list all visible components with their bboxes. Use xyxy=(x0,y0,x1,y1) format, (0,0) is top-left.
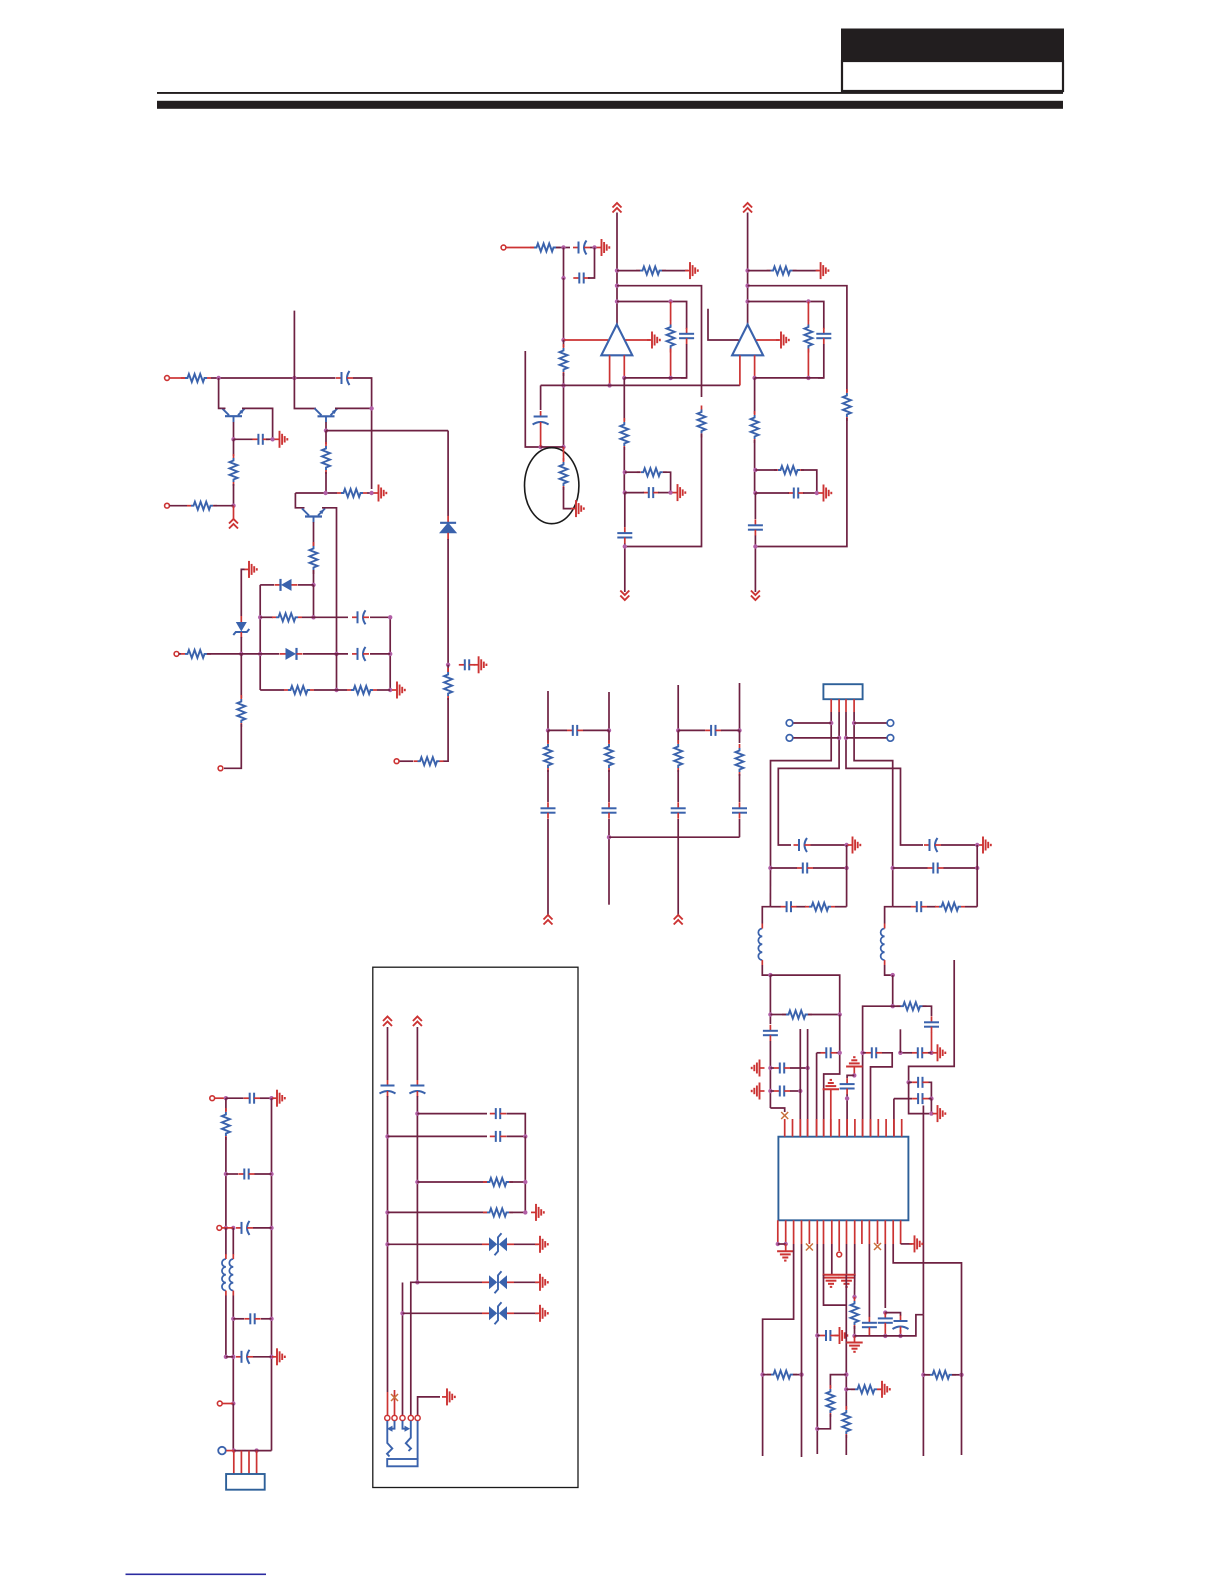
wire branch2 mid xyxy=(608,730,610,743)
capacitor C202 xyxy=(573,273,589,284)
node junction xyxy=(829,721,833,725)
wire U2 bottom pin 8 xyxy=(831,1220,833,1244)
wire c407 l xyxy=(893,867,928,869)
wire row 837 xyxy=(609,836,740,838)
wire branch3 top xyxy=(677,685,679,730)
inductor L402 xyxy=(881,924,885,966)
capacitor C413 xyxy=(840,1078,855,1094)
node junction xyxy=(561,445,565,449)
wire C201 gnd xyxy=(590,247,597,249)
wire C203 low xyxy=(681,344,687,378)
wire r404 l xyxy=(893,1005,901,1007)
jack J4 sleeve line xyxy=(417,1421,419,1459)
resistor R205 xyxy=(667,321,675,353)
wire input rail xyxy=(563,278,565,340)
node junction xyxy=(906,1080,910,1084)
wire b4 tail xyxy=(739,819,741,837)
ground GND9 xyxy=(571,500,584,517)
wire row 493 xyxy=(295,492,337,494)
wire J1-4 stub xyxy=(399,760,413,762)
wire c501 r xyxy=(260,1097,272,1099)
wire pin11 drop xyxy=(854,1275,856,1297)
node junction xyxy=(668,299,672,303)
terminal JK-4 xyxy=(408,1415,413,1420)
resistor R112 xyxy=(284,686,314,694)
node junction xyxy=(623,544,627,548)
wire diode row left xyxy=(260,584,274,586)
wire e-left1 xyxy=(225,1098,227,1111)
power +V arrow P1 xyxy=(229,519,238,529)
wire gnd bus feeds xyxy=(823,1244,825,1275)
wire row 654 a xyxy=(207,653,241,655)
wire R103 to node xyxy=(214,505,234,507)
wire U2 bottom pin 9 xyxy=(846,1220,848,1244)
wire jog ch1 low xyxy=(762,965,770,975)
resistor R102 xyxy=(230,454,238,486)
node junction xyxy=(852,721,856,725)
wire U2 bottom pin 2 xyxy=(785,1220,787,1244)
wire gnd to zener rail xyxy=(241,569,244,616)
node junction xyxy=(891,866,895,870)
ground GND34 xyxy=(823,1278,839,1287)
resistor R110 xyxy=(272,613,302,621)
wire op2 pin l xyxy=(739,355,741,385)
node junction xyxy=(806,299,810,303)
ground GND25 xyxy=(846,1343,862,1352)
wire c407 r xyxy=(944,867,978,869)
connector CN1 box xyxy=(823,684,862,699)
node junction xyxy=(745,284,749,288)
terminal JK-3 xyxy=(400,1415,405,1420)
node junction xyxy=(838,1012,842,1016)
node junction xyxy=(753,491,757,495)
wire CN1 pin2 xyxy=(838,699,840,712)
wire U2 top pin 11 xyxy=(862,1119,864,1137)
capacitor C419 xyxy=(893,1316,909,1333)
wire gnd19 stub xyxy=(853,1067,855,1076)
wire p2 drop xyxy=(778,712,839,845)
resistor R105 xyxy=(414,757,444,765)
node junction xyxy=(231,1226,235,1230)
wire jog ch1 xyxy=(762,907,770,924)
capacitor C206 xyxy=(617,527,632,543)
wire U2 bottom pin 14 xyxy=(884,1220,886,1244)
resistor R101 xyxy=(181,374,211,382)
wire R211 bottom xyxy=(807,349,809,378)
wire Q103 collector xyxy=(335,407,372,409)
wire c415 l xyxy=(894,1098,912,1100)
wire U2 top pin 1 xyxy=(784,1119,786,1137)
wire op2 low2 xyxy=(754,440,756,493)
wire c410 drop xyxy=(816,1053,818,1137)
wire osc stub2 xyxy=(807,1029,809,1137)
wire r209 l xyxy=(748,270,771,272)
wire e bottom rail xyxy=(232,1404,234,1451)
terminal J3-2 xyxy=(217,1226,222,1231)
tvs diode ZD602 xyxy=(482,1271,514,1293)
node junction xyxy=(852,1073,856,1077)
transistor Q102 xyxy=(302,509,325,523)
resistor R304 xyxy=(736,744,744,776)
op-amp U1A xyxy=(601,325,632,356)
ground GND7 xyxy=(685,262,698,279)
wire vcc1 rail xyxy=(616,213,618,325)
capacitor C502 xyxy=(238,1169,254,1180)
wire f r6 r xyxy=(514,1281,538,1283)
wire r203 gnd xyxy=(662,270,688,272)
terminal J1-4 xyxy=(394,759,399,764)
node junction xyxy=(929,1051,933,1055)
node junction xyxy=(844,1387,848,1391)
wire cap cluster top1 xyxy=(868,1244,870,1317)
wire to J1-2 xyxy=(233,484,235,506)
ground GND19 xyxy=(846,1057,862,1066)
wire gnd19 jog xyxy=(847,1075,854,1078)
wire jog r406 xyxy=(830,1375,846,1388)
wire fb c l xyxy=(625,492,644,494)
node junction xyxy=(898,1334,902,1338)
ground GND22 xyxy=(777,1251,793,1260)
capacitor C208 xyxy=(788,488,804,499)
node junction xyxy=(845,1096,849,1100)
node junction xyxy=(334,688,338,692)
wire c416 r xyxy=(836,1335,838,1337)
jack J4 body xyxy=(387,1459,417,1466)
node junction xyxy=(269,1355,273,1359)
node junction xyxy=(224,1172,228,1176)
node junction xyxy=(311,615,315,619)
footer blue rule xyxy=(126,1574,267,1576)
node junction xyxy=(668,490,672,494)
resistor R208 xyxy=(637,468,667,476)
wire b2 tail xyxy=(608,819,610,905)
power arrow P9 xyxy=(413,1017,422,1027)
wire U2 bottom pin 10 xyxy=(854,1220,856,1244)
power +V arrow P4 xyxy=(743,203,752,213)
wire mic res top xyxy=(563,447,565,461)
wire row906 ch2 xyxy=(893,906,911,908)
ground GND11 xyxy=(816,262,829,279)
wire pin3 route xyxy=(763,1244,794,1456)
resistor R113 xyxy=(347,686,377,694)
wire c405 r xyxy=(790,1067,808,1069)
wire fb rail ch1 low xyxy=(625,434,702,547)
terminal J1-1 xyxy=(165,376,170,381)
resistor R107 xyxy=(337,489,367,497)
wire row 690 b xyxy=(314,689,347,691)
wire f b jog xyxy=(411,1282,418,1415)
wire c411 l xyxy=(863,1052,866,1054)
wire Q1 emitter diag join xyxy=(222,407,226,409)
resistor R206 xyxy=(560,458,568,490)
node junction xyxy=(959,1373,963,1377)
wire J1-1 stub xyxy=(170,377,186,379)
wire c404 low xyxy=(769,1041,771,1108)
wire c501 l xyxy=(226,1097,244,1099)
wire Q1 base xyxy=(233,422,235,439)
tvs diode ZD601 xyxy=(482,1233,514,1255)
capacitor C405 xyxy=(774,1063,790,1074)
wire vcc2 rail xyxy=(747,213,749,325)
wire p1 jog xyxy=(770,1108,784,1112)
wire op1 -in xyxy=(564,339,609,341)
wire J2 stub xyxy=(506,247,534,249)
wire x846 main xyxy=(845,1275,847,1409)
node junction xyxy=(768,866,772,870)
wire CN2 pin4 xyxy=(256,1451,258,1474)
resistor R602 xyxy=(483,1208,513,1216)
terminal JK-2 xyxy=(392,1415,397,1420)
wire base rows join xyxy=(313,585,315,617)
node junction xyxy=(269,1317,273,1321)
wire x770 low xyxy=(769,975,771,1024)
wire c505 r xyxy=(253,1356,272,1358)
wire op1 pin l xyxy=(609,355,611,385)
wire row975 ch1 xyxy=(770,975,839,1014)
wire to +V arrow xyxy=(233,506,235,519)
wire R211 top xyxy=(807,302,809,322)
resistor R301 xyxy=(544,740,552,772)
capacitor C303 xyxy=(671,802,686,818)
wire gnd bus left drop xyxy=(824,1275,847,1305)
node junction xyxy=(798,1089,802,1093)
capacitor C105 xyxy=(352,647,369,661)
wire op2 in stub xyxy=(708,309,739,340)
wire fB top xyxy=(416,1027,418,1080)
capacitor C205 xyxy=(643,487,659,498)
ground GND3 xyxy=(374,485,387,502)
wire zener to row xyxy=(240,637,242,654)
wire f r7 r xyxy=(514,1312,538,1314)
wire jog ch2 low xyxy=(885,965,893,975)
terminal JK-5 xyxy=(415,1415,420,1420)
node junction xyxy=(852,1334,856,1338)
wire r405 r xyxy=(793,1374,802,1376)
tvs diode ZD603 xyxy=(482,1302,514,1324)
op-amp U1B xyxy=(732,325,763,356)
wire row378 ch2 xyxy=(755,377,824,379)
node junction xyxy=(975,843,979,847)
wire to J1-5 xyxy=(224,724,241,768)
diode D101 xyxy=(440,516,456,540)
wire c410 l xyxy=(817,1052,821,1054)
wire e ind2 low xyxy=(232,1296,234,1404)
resistor R202 xyxy=(560,344,568,376)
wire U2 bottom pin 13 xyxy=(877,1220,879,1244)
wire diode branch xyxy=(447,431,449,516)
wire Q1 collector xyxy=(242,408,273,439)
electret mic M1 xyxy=(525,448,579,524)
wire r409 low xyxy=(854,1326,856,1336)
terminal TP1 xyxy=(837,1252,842,1257)
wire c417 low xyxy=(868,1333,870,1336)
wire CN2 pin2 xyxy=(240,1451,242,1474)
wire e ind2 top xyxy=(232,1228,234,1255)
capacitor C306 xyxy=(705,725,721,736)
terminal J1-3 xyxy=(174,652,179,657)
wire x260 rail xyxy=(259,585,261,690)
wire out cap ch1 xyxy=(624,493,626,527)
wire c419 low xyxy=(900,1330,902,1336)
node junction xyxy=(607,728,611,732)
wire fb c l ch2 xyxy=(755,492,789,494)
wire Q102 collector xyxy=(322,508,337,654)
wire f t5 gnd xyxy=(418,1397,440,1415)
wire r203 l xyxy=(617,270,640,272)
capacitor C209 xyxy=(748,519,763,535)
wire row 654 d xyxy=(370,653,390,655)
wire U2 bottom pin 7 xyxy=(823,1220,825,1244)
wire fb c r ch2 xyxy=(803,492,817,494)
wire row 654 c xyxy=(303,653,348,655)
no-connect X3 xyxy=(391,1394,398,1401)
wire x892 rail xyxy=(892,864,894,907)
wire diode row right xyxy=(298,584,314,586)
wire branch1 top xyxy=(547,691,549,730)
wire fA top xyxy=(387,1027,389,1080)
wire r405 l xyxy=(763,1374,771,1376)
wire row378 ch1 xyxy=(624,377,686,379)
ground GND32 xyxy=(535,1305,548,1322)
wire f r4 r xyxy=(510,1211,526,1213)
capacitor C401 xyxy=(794,838,811,852)
wire x908 drop xyxy=(909,1082,930,1113)
wire row 617 mid xyxy=(302,616,348,618)
resistor R211 xyxy=(804,321,812,353)
node junction xyxy=(311,583,315,587)
node junction xyxy=(231,437,235,441)
node junction xyxy=(385,1210,389,1214)
wire fb r l xyxy=(625,471,640,473)
resistor R404 xyxy=(897,1002,927,1010)
wire row 617 left xyxy=(260,616,273,618)
ground GND12 xyxy=(776,332,789,349)
wire gnd22 stub xyxy=(785,1244,787,1251)
wire c305 l xyxy=(548,729,567,731)
wire node301 row ch2 xyxy=(748,302,824,330)
capacitor C416 xyxy=(820,1330,836,1341)
wire x977 rail xyxy=(976,845,978,907)
wire op2 low xyxy=(754,378,756,414)
node junction xyxy=(891,1004,895,1008)
wire row 654 b xyxy=(241,653,279,655)
node junction xyxy=(752,376,756,380)
wire branch3 low xyxy=(677,770,679,802)
wire U2 top pin 9 xyxy=(846,1119,848,1137)
node junction xyxy=(446,663,450,667)
wire c409 low xyxy=(931,1033,933,1053)
wire cap cluster top2 xyxy=(884,1244,886,1308)
terminal J3-3 xyxy=(217,1401,222,1406)
wire op1 low xyxy=(623,378,625,421)
inductor L501 xyxy=(222,1254,226,1296)
jack J4 switch arrow 1 xyxy=(387,1421,395,1432)
wire U2 top pin 12 xyxy=(870,1119,872,1137)
wire Q102 emitter feed xyxy=(295,493,304,508)
capacitor C104 xyxy=(352,610,369,624)
node junction xyxy=(975,866,979,870)
wire f c rail xyxy=(402,1283,404,1416)
wire c412 r xyxy=(928,1052,932,1054)
transistor Q103 xyxy=(315,408,338,422)
node junction xyxy=(224,1355,228,1359)
resistor R213 xyxy=(774,466,804,474)
node junction xyxy=(623,490,627,494)
capacitor C410 xyxy=(820,1047,836,1058)
node junction xyxy=(292,376,296,380)
wire jog ch2 xyxy=(885,907,893,924)
wire c416 l xyxy=(817,1335,820,1337)
node junction xyxy=(385,1134,389,1138)
wire c415 r xyxy=(929,1098,932,1100)
wire fb rail ch1 xyxy=(617,286,702,397)
terminal T-L2 xyxy=(786,735,793,742)
node junction xyxy=(891,973,895,977)
node junction xyxy=(388,652,392,656)
node junction xyxy=(385,1242,389,1246)
resistor R408 xyxy=(842,1406,850,1438)
node junction xyxy=(844,736,848,740)
wire e-left2 xyxy=(225,1137,227,1228)
node junction xyxy=(231,504,235,508)
wire c402 r xyxy=(813,867,847,869)
node junction xyxy=(561,338,565,342)
wire pin4 long xyxy=(801,1244,803,1457)
wire f t2 stub xyxy=(394,1390,396,1415)
wire below cap node xyxy=(447,665,449,672)
wire gnd bus feed2 xyxy=(831,1244,833,1275)
wire c412 l xyxy=(900,1052,912,1054)
node junction xyxy=(768,1089,772,1093)
node junction xyxy=(852,1295,856,1299)
wire C207 low xyxy=(818,344,824,378)
wire U2 top pin 8 xyxy=(838,1119,840,1137)
wire c405 l xyxy=(770,1067,774,1069)
node junction xyxy=(254,1448,258,1452)
capacitor C505 xyxy=(236,1350,253,1364)
node junction xyxy=(231,1401,235,1405)
capacitor C601 xyxy=(380,1080,396,1097)
wire branch4 mid xyxy=(739,730,741,743)
wire fA mid xyxy=(387,1096,389,1392)
node junction xyxy=(615,268,619,272)
wire net N1b xyxy=(353,378,372,489)
node junction xyxy=(224,1226,228,1230)
wire row385 xyxy=(541,384,740,386)
wire c413 low xyxy=(846,1094,848,1136)
wire branch4 low xyxy=(739,774,741,802)
power arrow P6 xyxy=(544,915,553,925)
capacitor C411 xyxy=(866,1047,882,1058)
capacitor C414 xyxy=(912,1077,928,1088)
node junction xyxy=(898,1051,902,1055)
resistor R409 xyxy=(851,1297,859,1329)
node junction xyxy=(883,1334,887,1338)
wire f r5 xyxy=(388,1243,483,1245)
wire node301 row xyxy=(617,302,687,330)
node junction xyxy=(269,1172,273,1176)
ground GND16 xyxy=(752,1083,765,1100)
wire fb r corner ch2 xyxy=(801,470,817,493)
diode D103 xyxy=(280,648,303,660)
node junction xyxy=(369,406,373,410)
wire r410 l xyxy=(923,1374,930,1376)
wire U2 bottom pin 9t xyxy=(838,1220,840,1251)
wire b1 tail xyxy=(547,819,549,915)
wire op1 out xyxy=(626,339,651,341)
wire f r1 r xyxy=(507,1114,526,1137)
resistor R104 xyxy=(444,668,452,700)
